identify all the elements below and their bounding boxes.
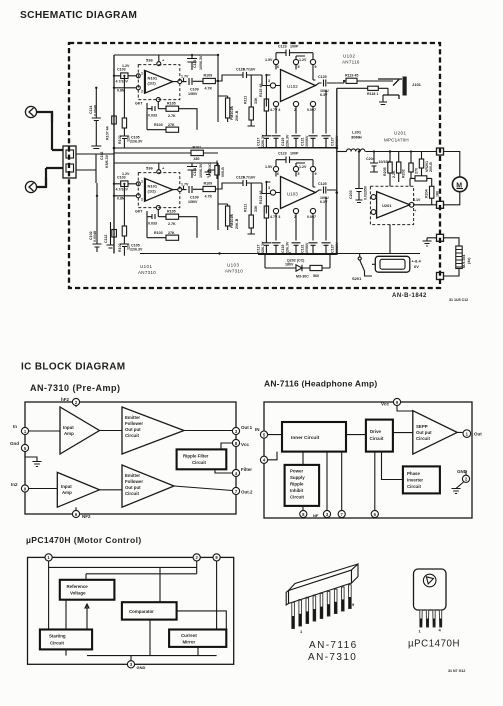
svg-text:4.7/16V: 4.7/16V bbox=[243, 68, 256, 72]
svg-text:Ripple: Ripple bbox=[290, 482, 304, 487]
svg-text:0.8M: 0.8M bbox=[117, 89, 125, 93]
svg-text:U102: U102 bbox=[343, 54, 355, 59]
svg-text:R111: R111 bbox=[244, 96, 248, 104]
svg-text:430: 430 bbox=[194, 157, 200, 161]
svg-text:1/50V: 1/50V bbox=[188, 92, 198, 96]
svg-text:Out.2: Out.2 bbox=[241, 490, 253, 495]
svg-text:Circuit: Circuit bbox=[125, 433, 139, 438]
svg-text:U101: U101 bbox=[140, 264, 152, 269]
svg-text:C114: C114 bbox=[89, 106, 93, 114]
svg-text:Comparator: Comparator bbox=[129, 609, 154, 614]
svg-text:Starting: Starting bbox=[49, 634, 66, 639]
svg-text:005-B: 005-B bbox=[221, 167, 225, 177]
svg-text:Voltage: Voltage bbox=[70, 591, 86, 596]
svg-text:0.022/50: 0.022/50 bbox=[364, 186, 368, 200]
svg-text:Circuit: Circuit bbox=[416, 436, 430, 441]
svg-text:0.0048: 0.0048 bbox=[93, 231, 97, 242]
svg-text:1: 1 bbox=[419, 629, 422, 634]
svg-text:Circuit: Circuit bbox=[407, 484, 421, 489]
svg-text:Power: Power bbox=[290, 469, 303, 474]
svg-text:100/6V: 100/6V bbox=[305, 135, 309, 147]
svg-text:K5/6.3V: K5/6.3V bbox=[105, 154, 109, 168]
svg-text:R109: R109 bbox=[204, 74, 213, 78]
svg-text:U103: U103 bbox=[287, 192, 298, 197]
svg-text:22/6.3V: 22/6.3V bbox=[130, 140, 143, 144]
svg-text:Emitter: Emitter bbox=[125, 473, 140, 478]
svg-text:Amp: Amp bbox=[62, 490, 72, 495]
svg-text:In: In bbox=[13, 424, 17, 429]
svg-text:C112: C112 bbox=[104, 235, 108, 243]
svg-text:Supply: Supply bbox=[290, 475, 305, 480]
svg-text:R107 44: R107 44 bbox=[106, 126, 110, 140]
svg-text:Out put: Out put bbox=[125, 485, 141, 490]
svg-text:4.7/16V: 4.7/16V bbox=[116, 80, 129, 84]
svg-text:9: 9 bbox=[315, 65, 317, 69]
svg-text:4.7K: 4.7K bbox=[205, 87, 213, 91]
svg-text:1: 1 bbox=[300, 629, 303, 634]
svg-text:C127: C127 bbox=[331, 137, 335, 146]
svg-text:R202: R202 bbox=[402, 169, 406, 178]
svg-text:Circuit: Circuit bbox=[370, 436, 384, 441]
svg-text:100P: 100P bbox=[290, 45, 299, 49]
svg-text:GND: GND bbox=[457, 469, 468, 474]
svg-text:SEPP: SEPP bbox=[416, 424, 428, 429]
svg-text:Reference: Reference bbox=[67, 584, 89, 589]
svg-text:U201: U201 bbox=[382, 203, 392, 208]
svg-text:R115 48: R115 48 bbox=[259, 84, 263, 97]
svg-text:NF2: NF2 bbox=[82, 514, 91, 519]
svg-text:M3-30C: M3-30C bbox=[296, 275, 309, 279]
svg-text:Inhibit: Inhibit bbox=[290, 488, 304, 493]
svg-text:U201: U201 bbox=[394, 131, 406, 136]
svg-text:1.5V: 1.5V bbox=[265, 58, 273, 62]
svg-text:3: 3 bbox=[268, 79, 270, 83]
svg-text:0.0048: 0.0048 bbox=[94, 105, 98, 116]
svg-text:µPC1470H: µPC1470H bbox=[408, 639, 460, 650]
svg-text:Out put: Out put bbox=[416, 430, 432, 435]
svg-text:20K-B: 20K-B bbox=[235, 110, 239, 121]
svg-text:C204: C204 bbox=[366, 157, 375, 161]
svg-text:M-9-3x4: M-9-3x4 bbox=[462, 255, 466, 268]
svg-text:AN-7310: AN-7310 bbox=[308, 652, 357, 663]
svg-text:+: + bbox=[162, 58, 165, 63]
svg-text:180V: 180V bbox=[285, 263, 294, 267]
svg-text:GND: GND bbox=[137, 665, 146, 670]
svg-text:30MH: 30MH bbox=[351, 135, 362, 140]
svg-text:C117: C117 bbox=[257, 138, 261, 146]
svg-text:Vcc: Vcc bbox=[381, 402, 390, 407]
svg-text:AN-7116 (Headphone Amp): AN-7116 (Headphone Amp) bbox=[264, 379, 377, 389]
svg-text:AN7310: AN7310 bbox=[138, 270, 156, 275]
svg-text:1.7V: 1.7V bbox=[181, 75, 189, 79]
svg-text:Follower: Follower bbox=[125, 479, 143, 484]
svg-text:1: 1 bbox=[141, 72, 143, 76]
svg-text:Emitter: Emitter bbox=[125, 415, 140, 420]
svg-text:Ripple Filter: Ripple Filter bbox=[183, 454, 209, 459]
svg-text:AN-7310 (Pre-Amp): AN-7310 (Pre-Amp) bbox=[30, 383, 121, 393]
svg-text:C103: C103 bbox=[117, 68, 126, 72]
svg-text:VR101C: VR101C bbox=[208, 163, 212, 177]
svg-text:SCHEMATIC DIAGRAM: SCHEMATIC DIAGRAM bbox=[20, 10, 137, 21]
svg-text:U103: U103 bbox=[227, 263, 239, 268]
svg-text:0.033: 0.033 bbox=[148, 114, 157, 118]
svg-text:4.7V 4: 4.7V 4 bbox=[270, 108, 280, 112]
svg-text:6: 6 bbox=[277, 65, 279, 69]
svg-text:Follower: Follower bbox=[125, 421, 143, 426]
svg-text:Input: Input bbox=[63, 425, 74, 430]
svg-text:Inner Circuit: Inner Circuit bbox=[291, 435, 320, 441]
svg-text:C119: C119 bbox=[281, 138, 285, 146]
svg-text:(4x): (4x) bbox=[467, 257, 471, 264]
svg-text:Out put: Out put bbox=[125, 427, 141, 432]
svg-text:Amp: Amp bbox=[64, 431, 74, 436]
svg-text:1.2V: 1.2V bbox=[122, 64, 130, 68]
svg-text:PM101A: PM101A bbox=[230, 106, 234, 120]
svg-text:U102: U102 bbox=[287, 84, 298, 89]
svg-text:3.1V: 3.1V bbox=[413, 198, 421, 202]
svg-text:GKT: GKT bbox=[135, 102, 143, 106]
svg-text:6V: 6V bbox=[414, 264, 419, 269]
svg-text:R101: R101 bbox=[193, 146, 202, 150]
svg-text:31 1U5 C12: 31 1U5 C12 bbox=[449, 298, 468, 302]
svg-text:R118 1: R118 1 bbox=[367, 92, 378, 96]
svg-text:C112: C112 bbox=[100, 152, 104, 160]
svg-text:560: 560 bbox=[313, 274, 319, 278]
svg-text:R105: R105 bbox=[167, 102, 176, 106]
svg-text:Filter: Filter bbox=[241, 467, 252, 472]
svg-text:C121: C121 bbox=[301, 137, 305, 146]
svg-text:180: 180 bbox=[436, 191, 440, 197]
svg-text:6.3V: 6.3V bbox=[320, 93, 328, 97]
svg-text:Circuit: Circuit bbox=[125, 491, 139, 496]
svg-text:Gnd: Gnd bbox=[10, 441, 19, 446]
svg-text:R205: R205 bbox=[383, 167, 387, 176]
svg-text:2.2K: 2.2K bbox=[392, 170, 396, 178]
svg-text:Circuit: Circuit bbox=[50, 641, 64, 646]
svg-text:Inverter: Inverter bbox=[407, 478, 423, 483]
svg-text:Input: Input bbox=[61, 484, 72, 489]
svg-text:C123: C123 bbox=[278, 45, 287, 49]
svg-text:0.007: 0.007 bbox=[307, 108, 316, 112]
svg-text:22/6.3V: 22/6.3V bbox=[261, 134, 265, 147]
svg-text:R102: R102 bbox=[118, 135, 122, 144]
svg-text:MPC1470H: MPC1470H bbox=[384, 138, 409, 143]
svg-text:AN7116: AN7116 bbox=[342, 60, 360, 65]
svg-text:+: + bbox=[414, 208, 417, 213]
svg-text:536: 536 bbox=[146, 58, 153, 63]
svg-text:Out 1: Out 1 bbox=[241, 425, 253, 430]
svg-text:2: 2 bbox=[141, 90, 143, 94]
svg-text:Vcc: Vcc bbox=[241, 442, 250, 447]
svg-text:33K: 33K bbox=[254, 97, 258, 104]
svg-text:+-8.4: +-8.4 bbox=[412, 259, 422, 264]
svg-text:100/6.3V: 100/6.3V bbox=[199, 55, 203, 70]
svg-text:S201: S201 bbox=[352, 276, 362, 281]
svg-text:In2: In2 bbox=[11, 482, 18, 487]
svg-text:9: 9 bbox=[352, 602, 355, 607]
svg-text:µPC1470H (Motor Control): µPC1470H (Motor Control) bbox=[26, 535, 142, 545]
svg-text:hF2: hF2 bbox=[61, 397, 69, 402]
svg-text:2.7K: 2.7K bbox=[168, 114, 176, 118]
svg-text:Current: Current bbox=[181, 633, 197, 638]
svg-text:AN-7116: AN-7116 bbox=[309, 640, 358, 651]
svg-text:Phase: Phase bbox=[407, 471, 420, 476]
svg-text:C109: C109 bbox=[190, 88, 199, 92]
svg-text:270: 270 bbox=[415, 168, 419, 174]
svg-text:NF: NF bbox=[313, 513, 319, 518]
svg-text:5: 5 bbox=[298, 65, 300, 69]
svg-text:4: 4 bbox=[439, 628, 442, 633]
svg-text:IN: IN bbox=[255, 427, 260, 432]
svg-text:IC BLOCK DIAGRAM: IC BLOCK DIAGRAM bbox=[21, 362, 125, 373]
svg-text:R103: R103 bbox=[154, 123, 163, 127]
svg-text:22/6.3V: 22/6.3V bbox=[286, 134, 290, 147]
svg-text:200-B: 200-B bbox=[429, 162, 433, 172]
svg-text:Drive: Drive bbox=[370, 429, 382, 434]
svg-text:27K: 27K bbox=[168, 123, 175, 127]
svg-text:31 N7 G12: 31 N7 G12 bbox=[448, 669, 465, 673]
svg-text:C125: C125 bbox=[318, 75, 327, 79]
svg-text:Out: Out bbox=[474, 432, 482, 437]
svg-text:Mirror: Mirror bbox=[183, 639, 196, 644]
svg-text:C203: C203 bbox=[349, 190, 353, 199]
svg-text:R204: R204 bbox=[425, 189, 429, 198]
svg-text:Circuit: Circuit bbox=[192, 460, 206, 465]
svg-text:(1/2): (1/2) bbox=[148, 81, 157, 86]
svg-text:1.2V: 1.2V bbox=[299, 58, 307, 62]
svg-text:Circuit: Circuit bbox=[290, 495, 304, 500]
svg-text:AN7310: AN7310 bbox=[225, 269, 243, 274]
svg-text:C111: C111 bbox=[193, 60, 197, 68]
svg-text:AN-B-1842: AN-B-1842 bbox=[392, 293, 427, 299]
svg-text:J101: J101 bbox=[412, 82, 422, 87]
svg-text:R119 45: R119 45 bbox=[345, 74, 358, 78]
